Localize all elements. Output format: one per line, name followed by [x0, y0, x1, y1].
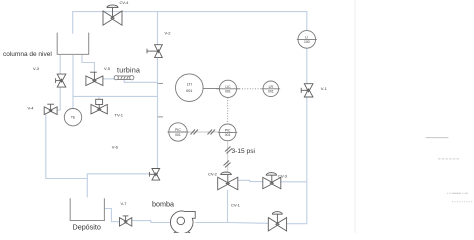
- svg-text:bomba: bomba: [152, 200, 174, 209]
- svg-text:CV-2: CV-2: [208, 172, 218, 177]
- svg-text:001: 001: [175, 133, 181, 137]
- svg-text:LTI: LTI: [187, 82, 192, 86]
- svg-text:PIC: PIC: [225, 128, 231, 132]
- svg-text:V-3: V-3: [33, 66, 40, 71]
- svg-text:3-15 psi: 3-15 psi: [232, 148, 256, 155]
- svg-text:V-1: V-1: [321, 86, 328, 91]
- svg-text:TV-1: TV-1: [115, 113, 124, 118]
- svg-text:PIC: PIC: [175, 128, 181, 132]
- svg-text:001: 001: [186, 89, 192, 93]
- svg-text:CV-4: CV-4: [120, 0, 130, 5]
- svg-text:001: 001: [225, 90, 231, 94]
- svg-text:LIC: LIC: [225, 85, 231, 89]
- svg-text:001: 001: [268, 90, 274, 94]
- svg-text:turbina: turbina: [117, 67, 140, 74]
- svg-text:columna de nivel: columna de nivel: [3, 51, 52, 58]
- svg-text:TE: TE: [71, 116, 76, 120]
- svg-text:V-6: V-6: [112, 145, 119, 150]
- svg-text:LI: LI: [305, 35, 308, 39]
- svg-text:001: 001: [225, 133, 231, 137]
- svg-text:CV-3: CV-3: [278, 173, 288, 178]
- svg-text:LR: LR: [269, 85, 274, 89]
- svg-text:V-2: V-2: [165, 31, 172, 36]
- svg-text:CV-1: CV-1: [231, 202, 241, 207]
- svg-text:V-4: V-4: [28, 106, 35, 111]
- svg-text:100: 100: [304, 40, 310, 44]
- svg-text:V-5: V-5: [104, 66, 111, 71]
- svg-text:V-7: V-7: [121, 201, 128, 206]
- svg-text:Depósito: Depósito: [73, 223, 101, 232]
